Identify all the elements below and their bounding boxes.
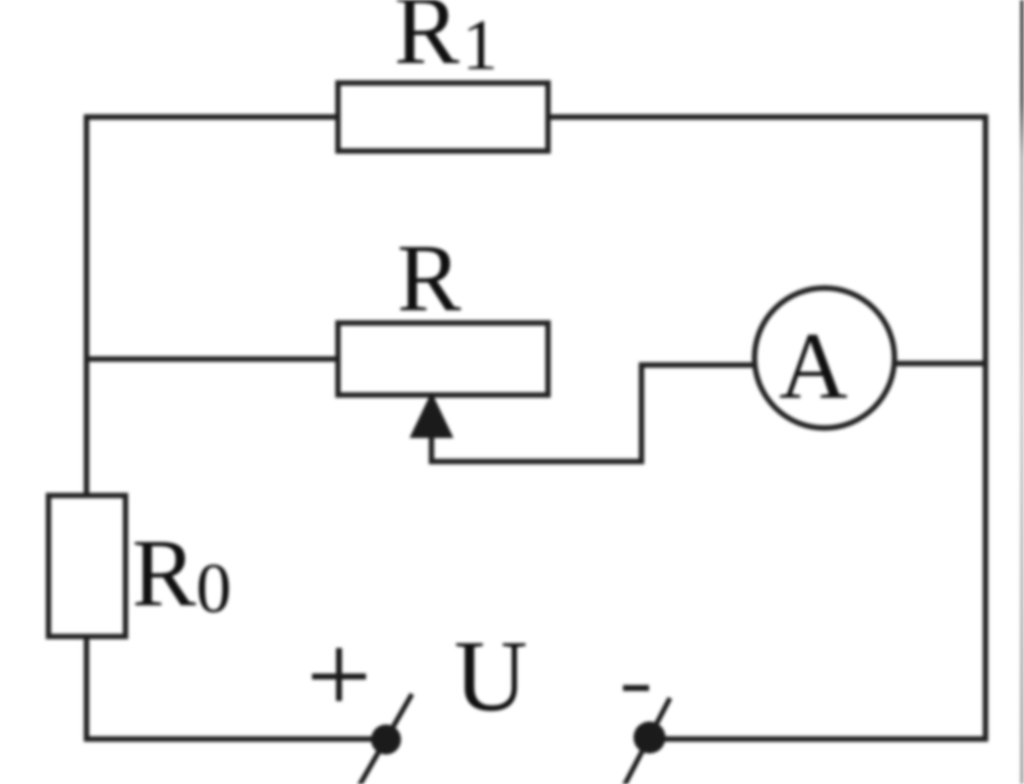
svg-text:U: U xyxy=(454,620,528,733)
svg-text:R: R xyxy=(132,519,196,626)
svg-text:1: 1 xyxy=(462,5,498,85)
svg-text:R: R xyxy=(394,0,460,85)
svg-text:0: 0 xyxy=(196,550,232,628)
svg-text:R: R xyxy=(397,224,461,331)
svg-text:A: A xyxy=(779,313,848,419)
